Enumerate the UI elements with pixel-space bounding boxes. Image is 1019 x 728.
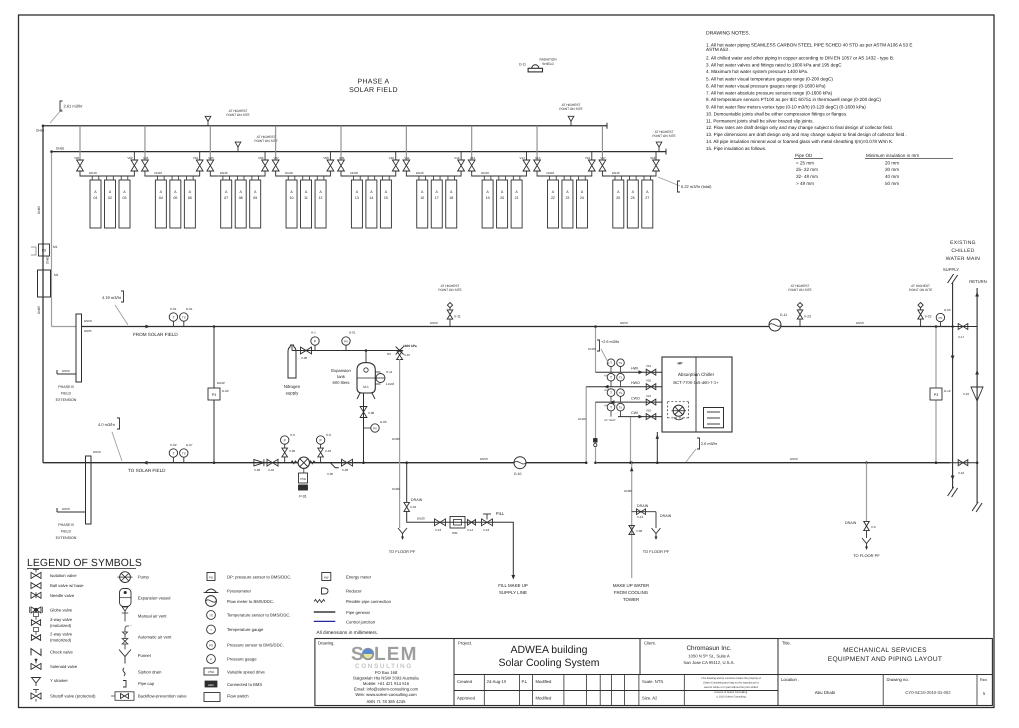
solar collector group A25-A27 xyxy=(611,171,655,228)
svg-text:Expansion: Expansion xyxy=(331,368,351,373)
svg-text:DN20: DN20 xyxy=(392,437,400,441)
valve V-04 isolation xyxy=(267,459,278,466)
svg-text:Solenoid valve: Solenoid valve xyxy=(50,664,78,669)
floor drain funnel middle xyxy=(652,528,661,534)
svg-text:Minimum insulation in mm: Minimum insulation in mm xyxy=(866,153,919,158)
svg-text:32- 48 mm: 32- 48 mm xyxy=(796,174,818,179)
svg-text:DN65: DN65 xyxy=(37,206,41,214)
svg-text:600 liters: 600 liters xyxy=(333,380,350,385)
svg-text:V-01: V-01 xyxy=(410,505,417,509)
svg-text:SHIELD: SHIELD xyxy=(542,62,554,66)
svg-text:DN20: DN20 xyxy=(624,489,632,493)
svg-text:V06: V06 xyxy=(258,156,264,160)
title block fine print xyxy=(701,677,761,698)
svg-text:Flow meter to BMS/DDC.: Flow meter to BMS/DDC. xyxy=(227,599,274,604)
svg-text:Balgowlah Hts NSW 2093 Austral: Balgowlah Hts NSW 2093 Australia xyxy=(353,676,419,681)
svg-text:T: T xyxy=(610,391,612,395)
svg-text:5. All hot water visual temper: 5. All hot water visual temperature gaug… xyxy=(706,77,833,82)
VSD drive for pump P-01 xyxy=(303,468,305,473)
legend reducer xyxy=(322,588,329,594)
svg-text:D-01: D-01 xyxy=(349,331,356,335)
solar collector group A07-A09 xyxy=(219,171,263,228)
wire left gray supply drop xyxy=(51,152,53,327)
svg-text:~: ~ xyxy=(130,624,132,628)
valve pair V04 V05 xyxy=(193,126,219,176)
chilled water out drop xyxy=(595,402,597,463)
svg-text:V15: V15 xyxy=(535,156,541,160)
svg-text:M1: M1 xyxy=(53,245,58,249)
pressure gauge before pump xyxy=(281,436,289,444)
svg-text:HP TEMP: HP TEMP xyxy=(604,419,616,422)
svg-text:RETURN: RETURN xyxy=(969,279,986,284)
legend 2-way valve motorized xyxy=(31,635,40,641)
svg-text:15. Pipe insulation as follows: 15. Pipe insulation as follows. xyxy=(706,146,766,151)
svg-text:Control junction: Control junction xyxy=(346,619,376,624)
svg-text:12: 12 xyxy=(319,196,323,200)
solar collector group A19-A21 xyxy=(480,171,524,228)
svg-text:BMS: BMS xyxy=(208,684,214,687)
svg-text:V02: V02 xyxy=(127,156,133,160)
legend connected to BMS xyxy=(205,681,217,687)
svg-text:50 mm: 50 mm xyxy=(885,181,899,186)
svg-text:2. All chilled water and other: 2. All chilled water and other piping in… xyxy=(706,55,894,60)
level gauge on expansion tank xyxy=(375,371,380,373)
svg-text:SOLAR FIELD: SOLAR FIELD xyxy=(349,87,398,94)
svg-text:RV: RV xyxy=(387,352,391,356)
phase B field extension stub (return) xyxy=(57,511,86,513)
floor drain funnel left xyxy=(398,528,407,534)
svg-text:(motorized): (motorized) xyxy=(50,623,72,628)
svg-text:PHASE B: PHASE B xyxy=(58,385,74,389)
svg-text:20 mm: 20 mm xyxy=(885,160,899,165)
svg-text:T: T xyxy=(610,361,612,365)
svg-text:Flow switch: Flow switch xyxy=(227,694,249,699)
legend pressure sensor xyxy=(207,641,216,650)
svg-text:P: P xyxy=(210,658,212,662)
svg-text:23: 23 xyxy=(565,196,569,200)
title block revision row xyxy=(457,677,988,701)
svg-text:H-02: H-02 xyxy=(170,443,177,447)
svg-text:FS: FS xyxy=(42,249,47,253)
existing CHW return line xyxy=(972,502,978,511)
svg-text:9. All hot water flow meters v: 9. All hot water flow meters vortex type… xyxy=(706,105,866,110)
svg-text:Level: Level xyxy=(386,382,394,386)
svg-text:VSD: VSD xyxy=(300,477,307,481)
air vent at highest point (manifold left) xyxy=(237,147,239,152)
svg-text:D-11: D-11 xyxy=(519,63,526,67)
svg-text:Drawing no.: Drawing no. xyxy=(887,677,909,682)
svg-text:M1: M1 xyxy=(54,273,59,277)
svg-text:Approved: Approved xyxy=(457,696,476,701)
svg-text:V04: V04 xyxy=(193,156,199,160)
legend Y strainer xyxy=(32,678,41,687)
air vent V-22 far right xyxy=(920,320,922,327)
svg-text:Shutoff valve (protected): Shutoff valve (protected) xyxy=(50,694,96,699)
flow label 2.6 m3/hr chiller out xyxy=(686,449,696,462)
svg-text:30 mm: 30 mm xyxy=(885,167,899,172)
svg-text:25- 32 mm: 25- 32 mm xyxy=(796,167,818,172)
svg-text:DRAIN: DRAIN xyxy=(411,498,423,502)
svg-text:EQUIPMENT AND PIPING LAYOUT: EQUIPMENT AND PIPING LAYOUT xyxy=(828,656,942,663)
svg-text:16: 16 xyxy=(420,196,424,200)
svg-text:V10: V10 xyxy=(389,156,395,160)
riser hot water out to return xyxy=(585,387,587,463)
svg-text:POINT ON SITE: POINT ON SITE xyxy=(652,134,675,138)
svg-text:DRAIN: DRAIN xyxy=(660,514,672,518)
svg-text:TS: TS xyxy=(209,614,213,618)
svg-text:V18: V18 xyxy=(650,156,656,160)
svg-text:Ball valve w/ base: Ball valve w/ base xyxy=(50,583,84,588)
svg-text:DN65: DN65 xyxy=(36,129,44,133)
solar collector group A16-A18 xyxy=(415,171,459,228)
valve pair V02 V03 xyxy=(127,126,153,176)
svg-text:V-07: V-07 xyxy=(404,353,411,357)
svg-text:Title.: Title. xyxy=(782,641,791,646)
svg-text:13: 13 xyxy=(355,196,359,200)
svg-text:SUPPLY LINE: SUPPLY LINE xyxy=(499,590,527,595)
svg-text:DN50: DN50 xyxy=(790,457,798,461)
svg-text:HWO: HWO xyxy=(631,381,640,385)
svg-text:Energy meter: Energy meter xyxy=(346,575,372,580)
svg-text:Chromasun Inc.: Chromasun Inc. xyxy=(686,645,731,652)
svg-text:09: 09 xyxy=(253,196,257,200)
svg-text:DN50: DN50 xyxy=(856,321,864,325)
svg-text:H-8: H-8 xyxy=(326,433,331,437)
svg-text:(motorized): (motorized) xyxy=(50,637,72,642)
pressure reducing valve V-12 xyxy=(482,519,493,526)
svg-text:6. All hot water visual pressu: 6. All hot water visual pressure gauges … xyxy=(706,83,826,88)
svg-text:V-04: V-04 xyxy=(268,468,275,472)
svg-text:VSD: VSD xyxy=(208,670,215,674)
svg-text:DRAIN: DRAIN xyxy=(637,504,649,508)
legend 3-way valve motorized xyxy=(31,620,40,626)
svg-text:Mobile: +61 421 914 516: Mobile: +61 421 914 516 xyxy=(363,681,410,686)
svg-text:Pipe OD: Pipe OD xyxy=(795,153,813,158)
fitting on CWO drop xyxy=(594,439,598,443)
svg-text:DN40: DN40 xyxy=(578,417,586,421)
svg-text:26: 26 xyxy=(631,196,635,200)
svg-text:V-17: V-17 xyxy=(958,335,965,339)
valve V-06 nitrogen line xyxy=(291,345,293,351)
svg-text:V-13: V-13 xyxy=(435,528,442,532)
svg-text:V-22: V-22 xyxy=(925,315,932,319)
svg-text:POINT ON SITE: POINT ON SITE xyxy=(438,288,461,292)
svg-text:03: 03 xyxy=(123,196,127,200)
fill make-up line xyxy=(407,518,514,576)
svg-text:V14: V14 xyxy=(519,156,525,160)
absorption chiller unit xyxy=(662,357,732,432)
flow switch FS-1 on left riser xyxy=(39,244,50,256)
svg-text:CONSULTING: CONSULTING xyxy=(355,663,413,670)
svg-text:RADIATION: RADIATION xyxy=(539,58,557,62)
svg-text:WATER MAIN: WATER MAIN xyxy=(946,256,980,262)
svg-text:DN40: DN40 xyxy=(588,347,596,351)
svg-text:Pipe general: Pipe general xyxy=(346,610,370,615)
legend ball valve xyxy=(31,583,41,589)
legend isolation valve xyxy=(31,572,41,578)
svg-text:22: 22 xyxy=(551,196,555,200)
svg-text:V12: V12 xyxy=(454,156,460,160)
svg-text:PS: PS xyxy=(209,644,213,648)
svg-text:7. All hot water absolute pres: 7. All hot water absolute pressure senso… xyxy=(706,90,833,95)
svg-text:Drawing.: Drawing. xyxy=(318,641,335,646)
svg-text:21: 21 xyxy=(515,196,519,200)
svg-text:19: 19 xyxy=(486,196,490,200)
svg-text:DN32: DN32 xyxy=(217,381,225,385)
flow label 4.19 m3/hr supply xyxy=(115,305,128,325)
valve pair V12 V13 xyxy=(454,126,480,176)
valve pair V08 V09 xyxy=(323,126,349,176)
legend globe valve xyxy=(31,607,41,613)
svg-text:FIELD: FIELD xyxy=(61,392,72,396)
svg-text:Siphon drain: Siphon drain xyxy=(138,669,162,674)
existing CHW supply line xyxy=(948,274,954,283)
svg-text:FROM SOLAR FIELD: FROM SOLAR FIELD xyxy=(133,332,178,337)
svg-text:Flexible pipe connection: Flexible pipe connection xyxy=(346,599,392,604)
legend flexible pipe connection xyxy=(314,600,325,603)
svg-text:V19: V19 xyxy=(646,364,652,368)
air vent at highest point (top pipe left) xyxy=(207,121,209,126)
svg-text:40 mm: 40 mm xyxy=(885,174,899,179)
svg-text:DN40: DN40 xyxy=(220,171,228,175)
header manifold from solar field xyxy=(76,314,82,382)
svg-text:T: T xyxy=(210,628,212,632)
legend variable speed drive xyxy=(204,668,218,675)
svg-text:4. Maximum hot water system pr: 4. Maximum hot water system pressure 140… xyxy=(706,69,808,74)
svg-text:Solem Consulting and may not b: Solem Consulting and may not be reproduc… xyxy=(703,682,759,685)
svg-text:EXTENSION: EXTENSION xyxy=(56,398,77,402)
legend pipe general xyxy=(314,611,336,613)
svg-text:1600 kPa: 1600 kPa xyxy=(403,344,417,348)
svg-text:V-05: V-05 xyxy=(327,472,334,476)
temperature sensor and pressure sensor on return xyxy=(169,449,177,457)
chiller drain drop xyxy=(656,432,658,463)
svg-text:24: 24 xyxy=(580,196,584,200)
svg-text:POINT ON SITE: POINT ON SITE xyxy=(254,139,277,143)
svg-text:TO FLOOR PF: TO FLOOR PF xyxy=(643,549,670,554)
svg-text:FROM COOLING: FROM COOLING xyxy=(614,590,649,595)
legend dp pressure sensor xyxy=(207,573,215,581)
svg-text:D-07: D-07 xyxy=(186,443,193,447)
svg-text:Scale. NTS: Scale. NTS xyxy=(642,679,663,684)
nitrogen supply cylinder xyxy=(288,345,296,378)
svg-text:SUPPLY: SUPPLY xyxy=(943,267,959,272)
chiller internal heat exchanger xyxy=(704,408,724,428)
svg-text:3-way valve: 3-way valve xyxy=(50,617,73,622)
svg-text:DN50: DN50 xyxy=(620,321,628,325)
flow meter D-10 on return xyxy=(514,457,526,469)
svg-text:DN65: DN65 xyxy=(84,329,92,333)
svg-text:EXTENSION: EXTENSION xyxy=(56,536,77,540)
svg-text:DRAIN: DRAIN xyxy=(845,521,857,525)
svg-text:8. All temperature sensors PT1: 8. All temperature sensors PT100 as per … xyxy=(706,97,881,102)
svg-text:11. Permanent joints shall be: 11. Permanent joints shall be silver bra… xyxy=(706,118,814,123)
svg-text:V-06: V-06 xyxy=(301,356,308,360)
svg-text:11: 11 xyxy=(304,196,308,200)
svg-text:DN40: DN40 xyxy=(350,171,358,175)
svg-text:consent of Solem Consulting.: consent of Solem Consulting. xyxy=(714,691,748,694)
svg-text:V20: V20 xyxy=(646,379,652,383)
legend energy meter xyxy=(322,573,331,581)
svg-text:H-11: H-11 xyxy=(386,370,393,374)
chiller internal pump (dashed) xyxy=(673,405,684,416)
svg-text:Needle valve: Needle valve xyxy=(50,593,75,598)
svg-text:Email: info@solem-consulting.c: Email: info@solem-consulting.com xyxy=(354,687,419,692)
svg-text:25: 25 xyxy=(616,196,620,200)
svg-text:V03: V03 xyxy=(143,156,149,160)
svg-text:V15: V15 xyxy=(646,409,652,413)
svg-text:All dimensions in millimeters.: All dimensions in millimeters. xyxy=(316,630,378,636)
svg-text:Modified: Modified xyxy=(536,679,552,684)
legend flow switch xyxy=(204,693,220,702)
svg-text:17: 17 xyxy=(435,196,439,200)
svg-text:MECHANICAL SERVICES: MECHANICAL SERVICES xyxy=(843,647,927,654)
pressure gauge on nitrogen line xyxy=(311,337,319,345)
temperature sensor T-01 and pressure sensor on supply xyxy=(169,313,177,321)
svg-text:FILL: FILL xyxy=(496,511,505,516)
backflow preventer fill line xyxy=(468,520,476,526)
svg-text:DN20: DN20 xyxy=(417,517,425,521)
svg-text:TS: TS xyxy=(182,315,186,319)
svg-text:This drawing and its contents: This drawing and its contents remain the… xyxy=(701,677,761,680)
svg-text:2-way valve: 2-way valve xyxy=(50,631,73,636)
svg-text:3. All hot water valves and fi: 3. All hot water valves and fittings rat… xyxy=(706,62,842,67)
valve pair V06 V07 xyxy=(258,126,284,176)
header manifold to solar field xyxy=(86,456,92,524)
air vent at highest point (top pipe right) xyxy=(570,121,572,126)
legend pressure gauge xyxy=(207,655,216,664)
svg-text:M-1: M-1 xyxy=(363,385,369,389)
bypass pipe with differential pressure sensor P3 xyxy=(213,327,215,463)
svg-text:FIELD: FIELD xyxy=(61,530,72,534)
svg-text:1050 N 5th St., Suite A: 1050 N 5th St., Suite A xyxy=(688,654,730,659)
svg-text:TS: TS xyxy=(619,392,623,395)
expansion tank 600 liters xyxy=(357,363,375,393)
svg-text:T: T xyxy=(172,451,174,455)
valve V18 field end xyxy=(650,152,666,176)
svg-text:CHILLED: CHILLED xyxy=(951,248,974,254)
svg-text:4.0 m3/hr: 4.0 m3/hr xyxy=(98,422,116,427)
svg-text:V-24: V-24 xyxy=(963,392,970,396)
svg-text:DN50: DN50 xyxy=(62,507,70,511)
legend automatic air vent xyxy=(122,626,129,650)
svg-text:V-11: V-11 xyxy=(454,315,461,319)
svg-text:TS: TS xyxy=(619,406,623,409)
svg-text:DN50: DN50 xyxy=(430,321,438,325)
svg-text:Client.: Client. xyxy=(644,641,656,646)
svg-text:V-08: V-08 xyxy=(368,411,375,415)
svg-text:24-Aug-10: 24-Aug-10 xyxy=(487,679,507,684)
svg-text:V11: V11 xyxy=(404,156,409,160)
legend funnel xyxy=(119,650,131,664)
svg-text:DRAWING NOTES.: DRAWING NOTES. xyxy=(706,31,750,37)
svg-text:PO Box 168: PO Box 168 xyxy=(375,670,398,675)
valve pair V16 V17 xyxy=(585,126,611,176)
svg-text:V17: V17 xyxy=(600,156,606,160)
floor drain funnel right xyxy=(862,538,871,544)
svg-text:FILL MAKE UP: FILL MAKE UP xyxy=(498,583,528,588)
legend expansion vessel xyxy=(120,589,132,607)
pressure sensor D-06 tank line xyxy=(364,427,371,429)
pipe to solar field (main hot return) xyxy=(43,462,950,464)
legend backflow prevention valve xyxy=(115,692,134,701)
svg-text:V07: V07 xyxy=(274,156,280,160)
svg-text:+2.6 m3/hr: +2.6 m3/hr xyxy=(601,340,620,344)
svg-text:V-0: V-0 xyxy=(871,525,876,529)
svg-text:Solar Cooling System: Solar Cooling System xyxy=(499,657,600,669)
svg-text:D-06: D-06 xyxy=(380,420,387,424)
svg-text:DN40: DN40 xyxy=(154,171,162,175)
svg-text:Modified: Modified xyxy=(536,696,552,701)
svg-text:BCT-7700-1x5-460-7-1+: BCT-7700-1x5-460-7-1+ xyxy=(673,380,719,385)
svg-text:DN65: DN65 xyxy=(56,147,64,151)
connection valve on return header xyxy=(958,460,968,466)
strainer on return pipe xyxy=(330,463,339,468)
svg-text:V13: V13 xyxy=(470,156,476,160)
pipe from solar field (main hot supply) xyxy=(82,326,951,328)
svg-text:27: 27 xyxy=(645,196,649,200)
svg-text:POINT ON SITE: POINT ON SITE xyxy=(788,288,811,292)
svg-text:D-10: D-10 xyxy=(514,472,521,476)
make-up water from cooling tower line xyxy=(631,463,633,578)
drain branch to floor right-middle xyxy=(632,511,656,513)
solar collector group A10-A12 xyxy=(284,171,328,228)
pump P-01 xyxy=(291,461,297,464)
svg-text:T: T xyxy=(610,376,612,380)
drain valve V-01 xyxy=(404,502,410,511)
svg-text:1. All hot water piping SEAMLE: 1. All hot water piping SEAMLESS CARBON … xyxy=(706,43,912,48)
svg-text:DN40: DN40 xyxy=(612,171,620,175)
svg-text:Funnel: Funnel xyxy=(138,653,151,658)
drain line far right xyxy=(866,463,868,521)
legend shutoff valve protected xyxy=(31,693,41,699)
solar collector group A04-A06 xyxy=(153,171,197,228)
svg-text:Rev.: Rev. xyxy=(980,678,988,682)
chiller HWI line with valve V-19 xyxy=(596,359,663,378)
svg-text:P3: P3 xyxy=(212,393,216,397)
svg-text:D-11: D-11 xyxy=(780,313,787,317)
svg-text:V-10: V-10 xyxy=(325,449,332,453)
svg-text:H-6: H-6 xyxy=(290,433,295,437)
air vent V-11 on supply pipe xyxy=(449,320,451,327)
svg-text:01: 01 xyxy=(94,196,98,200)
svg-text:MAKE UP WATER: MAKE UP WATER xyxy=(613,583,649,588)
legend temperature gauge xyxy=(207,625,216,634)
svg-text:POINT ON SITE: POINT ON SITE xyxy=(909,288,932,292)
svg-text:V-02: V-02 xyxy=(636,529,643,533)
wire tank top to nitrogen line xyxy=(365,351,367,363)
svg-text:TS: TS xyxy=(182,451,186,455)
svg-text:DN40: DN40 xyxy=(285,171,293,175)
drawing notes text xyxy=(706,31,912,152)
svg-text:Abu Dhabi: Abu Dhabi xyxy=(815,690,836,695)
svg-text:supply: supply xyxy=(286,391,299,396)
phase B field extension stub (supply) xyxy=(57,373,76,375)
svg-text:ADWEA building: ADWEA building xyxy=(510,644,587,656)
svg-text:kW: kW xyxy=(324,575,329,579)
pyranometer D-11 xyxy=(528,68,542,72)
svg-text:06: 06 xyxy=(188,196,192,200)
svg-text:13. Pipe dimensions are draft: 13. Pipe dimensions are draft design onl… xyxy=(706,132,907,137)
svg-text:CWI: CWI xyxy=(631,411,638,415)
svg-text:DN50: DN50 xyxy=(93,450,101,454)
svg-text:18: 18 xyxy=(449,196,453,200)
svg-text:Manual air vent: Manual air vent xyxy=(138,614,167,619)
svg-text:Nitrogen: Nitrogen xyxy=(284,384,301,389)
solar collector group A01-A03 xyxy=(88,171,132,228)
svg-text:6.22 m3/hr (total): 6.22 m3/hr (total) xyxy=(681,184,712,189)
svg-text:TO FLOOR PF: TO FLOOR PF xyxy=(389,549,416,554)
